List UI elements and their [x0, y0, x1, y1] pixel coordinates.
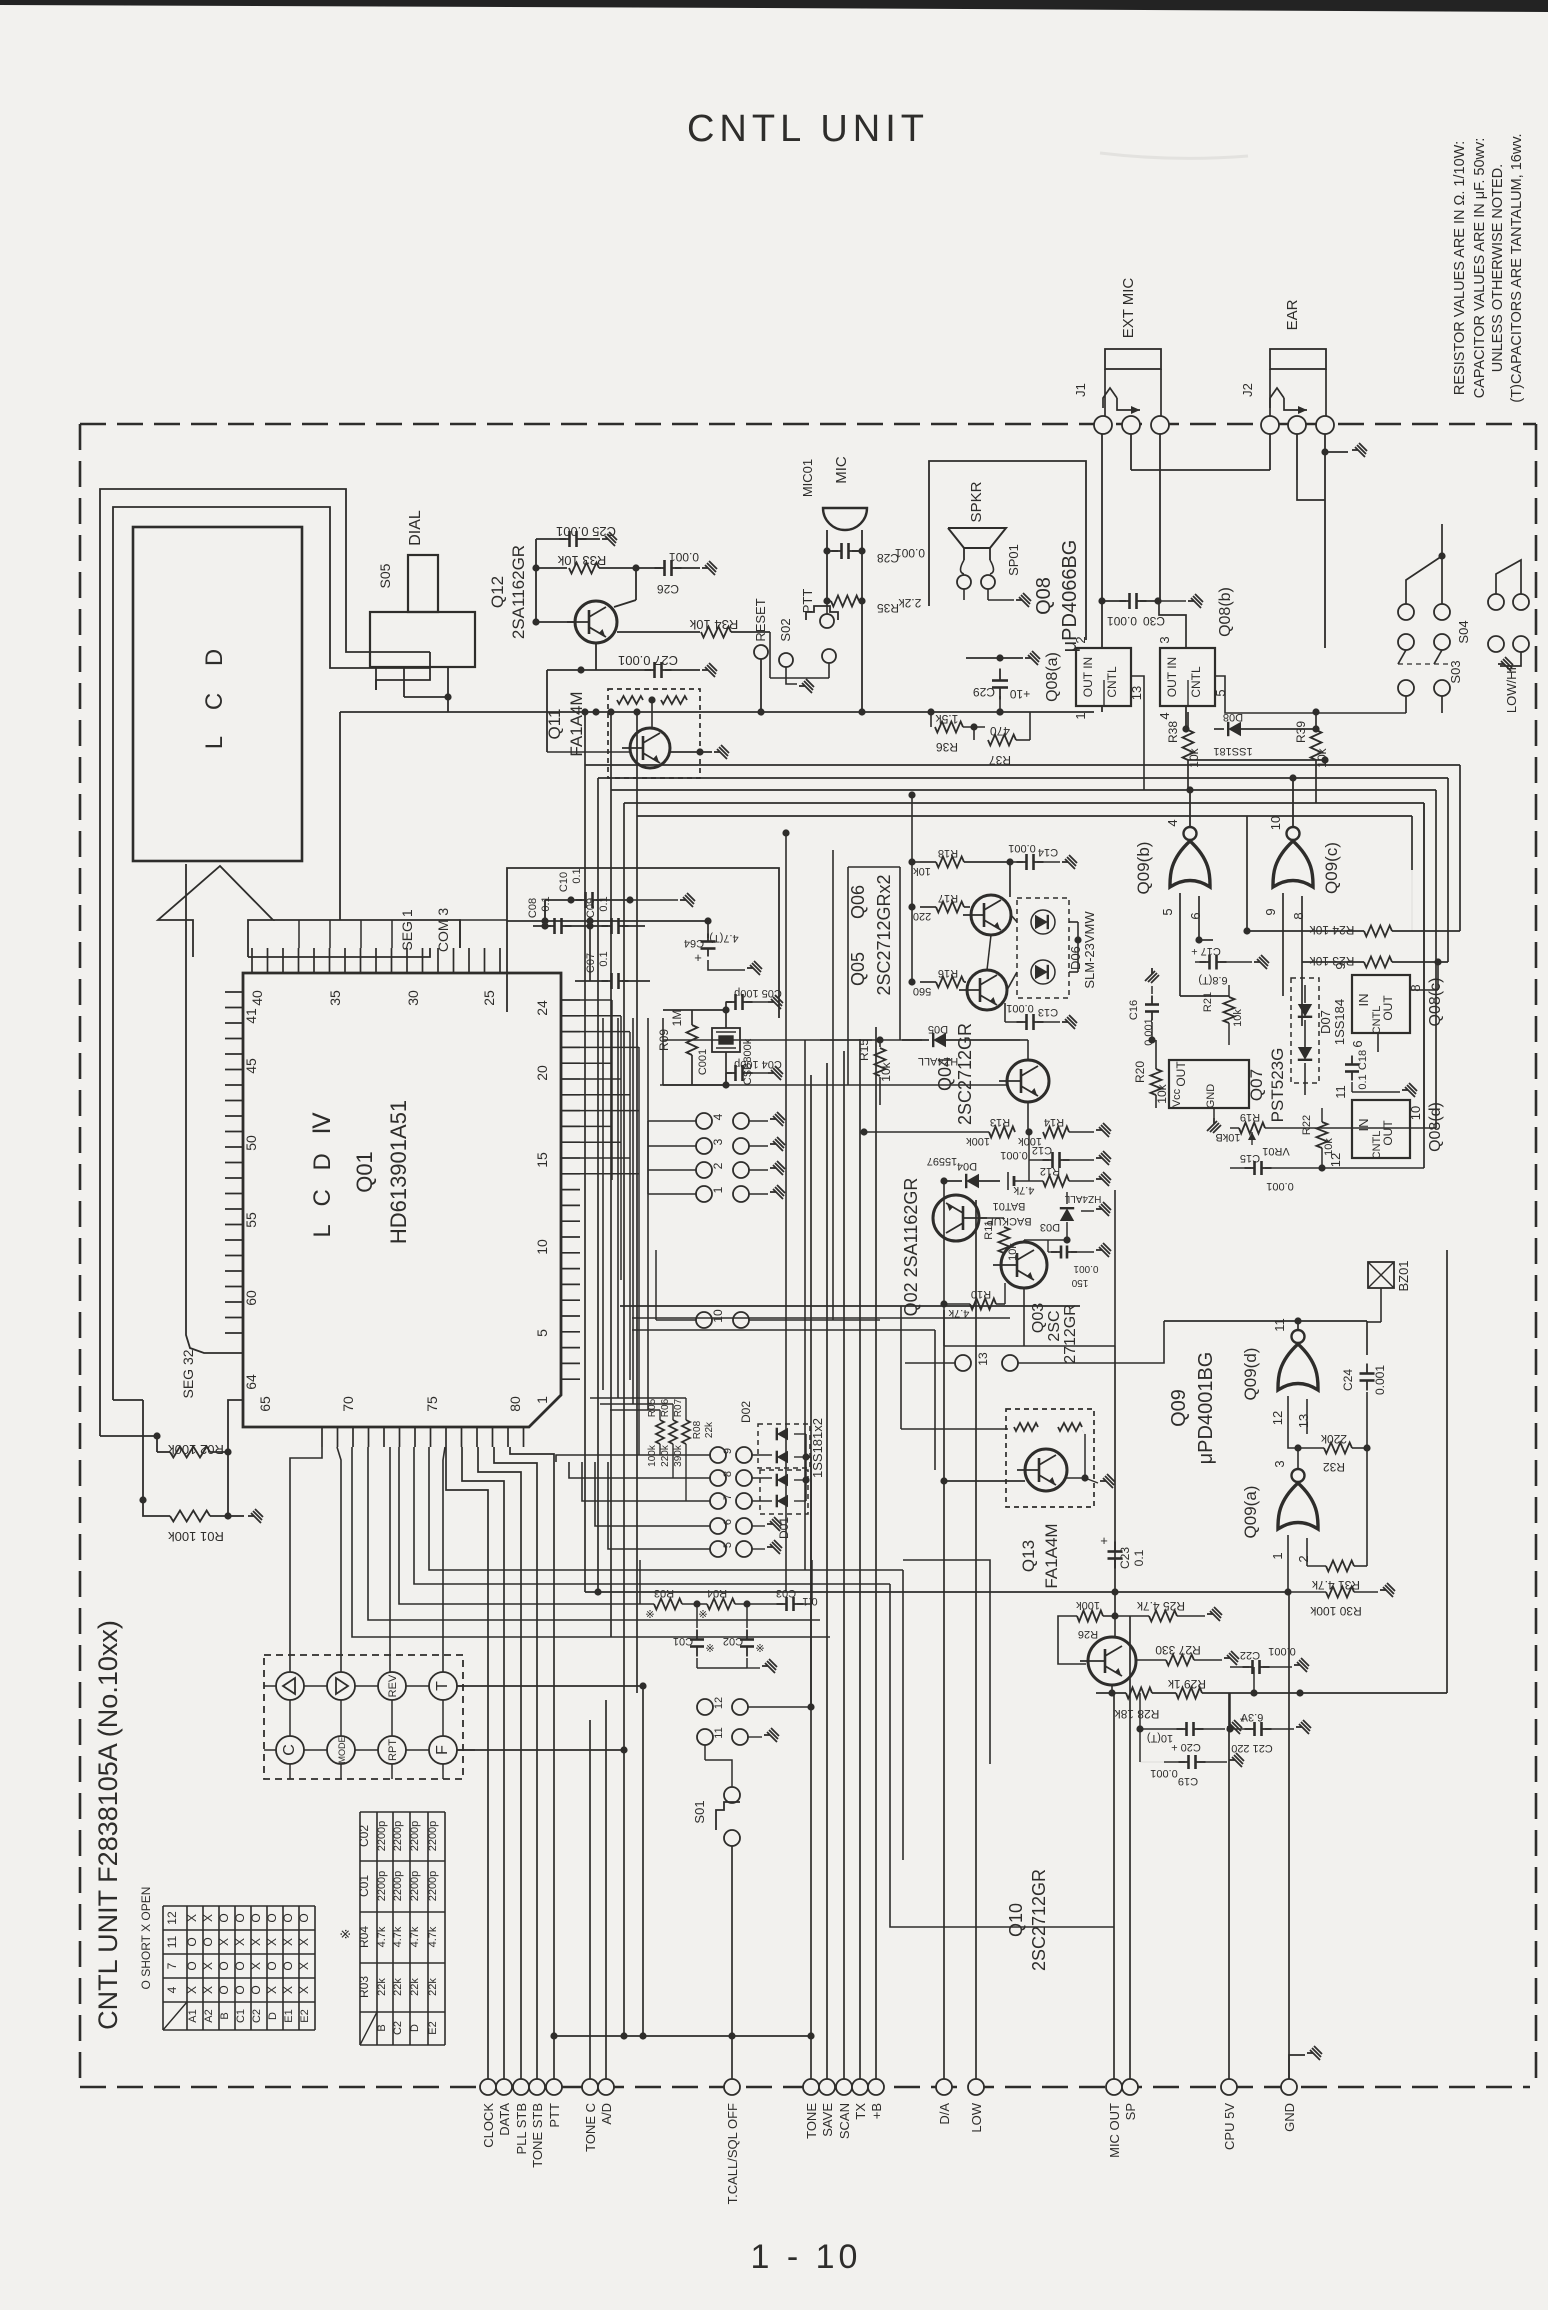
svg-text:S04: S04 — [1456, 620, 1471, 643]
svg-text:Q10: Q10 — [1006, 1903, 1026, 1937]
svg-text:1: 1 — [711, 1186, 725, 1193]
diode array D01 dashed box — [760, 1470, 808, 1514]
ground C14 — [1062, 855, 1077, 869]
svg-text:TONE C: TONE C — [583, 2103, 598, 2152]
wire EAR bus — [1131, 469, 1270, 471]
wire S05 to IC channel — [339, 712, 341, 920]
svg-text:2712GR: 2712GR — [1062, 1304, 1079, 1364]
svg-text:Q09(a): Q09(a) — [1241, 1486, 1260, 1539]
svg-text:J1: J1 — [1073, 383, 1088, 397]
svg-text:C001: C001 — [697, 1049, 709, 1075]
svg-text:(T)CAPACITORS ARE TANTALUM, 16: (T)CAPACITORS ARE TANTALUM, 16wv. — [1509, 133, 1525, 402]
keypad dashed box — [264, 1655, 463, 1779]
svg-text:3: 3 — [711, 1138, 725, 1145]
svg-text:5: 5 — [722, 1542, 734, 1548]
svg-text:1.5k: 1.5k — [935, 712, 959, 726]
svg-text:470: 470 — [990, 724, 1010, 738]
svg-text:R04: R04 — [707, 1587, 727, 1599]
svg-text:R14: R14 — [1044, 1116, 1064, 1128]
svg-text:Q08: Q08 — [1033, 577, 1055, 615]
parts table grid — [360, 1811, 445, 1813]
svg-text:4: 4 — [1157, 712, 1172, 719]
svg-text:R08: R08 — [692, 1420, 703, 1439]
resistor R29 — [1176, 1688, 1202, 1699]
ground R25 — [1207, 1607, 1222, 1621]
svg-text:0.1: 0.1 — [802, 1595, 817, 1607]
svg-text:O: O — [265, 1913, 279, 1922]
capacitor C01 — [696, 1630, 698, 1640]
resistor R26 — [1077, 1611, 1103, 1622]
svg-text:O SHORT X OPEN: O SHORT X OPEN — [139, 1887, 153, 1990]
svg-text:C19: C19 — [1178, 1775, 1198, 1787]
svg-text:RESISTOR VALUES ARE IN Ω. 1/10: RESISTOR VALUES ARE IN Ω. 1/10W: — [1452, 141, 1468, 395]
capacitor C19 — [1179, 1761, 1189, 1763]
ground D03 — [1096, 1202, 1111, 1216]
svg-text:C01: C01 — [357, 1875, 371, 1897]
resistor R25 — [1149, 1611, 1177, 1622]
svg-text:μPD4001BG: μPD4001BG — [1195, 1352, 1217, 1465]
RESET connector — [754, 645, 768, 659]
wire MIC OUT SP verticals — [1113, 1693, 1115, 2079]
key T — [429, 1672, 457, 1700]
wire left to pairs — [648, 1120, 696, 1122]
svg-text:0.001: 0.001 — [1107, 614, 1137, 628]
wire y760 segment — [1188, 759, 1325, 761]
svg-text:55: 55 — [243, 1212, 259, 1228]
svg-text:SP: SP — [1123, 2103, 1138, 2120]
svg-text:HZ4ALL: HZ4ALL — [1064, 1193, 1101, 1204]
svg-text:0.001: 0.001 — [1000, 1149, 1028, 1161]
svg-text:O: O — [217, 1913, 231, 1922]
LCD outer frame — [100, 489, 430, 1436]
ground S04 — [1500, 652, 1521, 666]
svg-text:X: X — [281, 1938, 295, 1946]
svg-text:R28 18k: R28 18k — [1114, 1707, 1160, 1721]
wire Q13 band — [620, 1305, 1080, 1307]
wire IC right pin stubs — [580, 999, 612, 1001]
svg-text:CNTL: CNTL — [1105, 666, 1119, 698]
svg-text:13: 13 — [976, 1352, 990, 1366]
svg-text:Q09(b): Q09(b) — [1134, 842, 1153, 895]
capacitor C03 — [777, 1603, 787, 1605]
svg-text:Q09(c): Q09(c) — [1322, 842, 1341, 894]
svg-text:4.7(T): 4.7(T) — [709, 932, 738, 944]
svg-text:+B: +B — [869, 2103, 884, 2119]
svg-text:R11: R11 — [983, 1220, 995, 1239]
svg-text:0.001: 0.001 — [1266, 1180, 1294, 1192]
IC Q01 bottom pins — [321, 1427, 323, 1447]
svg-text:S02: S02 — [778, 618, 793, 641]
wires S03 S04 — [1406, 556, 1442, 604]
svg-text:E1: E1 — [283, 2009, 295, 2022]
svg-text:TONE: TONE — [804, 2103, 819, 2139]
IC Q01 left pins — [225, 991, 243, 993]
transistor Q13 dashed box — [1006, 1409, 1094, 1507]
svg-text:22k: 22k — [409, 1978, 421, 1996]
svg-text:TX: TX — [853, 2103, 868, 2120]
svg-text:0.001: 0.001 — [1008, 842, 1036, 854]
wire Q13 base — [944, 1480, 1025, 1482]
capacitor C10 — [567, 896, 574, 903]
keypad F row wire right — [457, 1750, 624, 2036]
speaker terminals — [961, 560, 994, 574]
switch S03 dashed link — [1398, 663, 1450, 665]
bypass caps box — [507, 868, 779, 1018]
svg-text:O: O — [185, 1937, 199, 1946]
switch S02 — [779, 653, 793, 667]
wire Q09a to C23 line — [1115, 1591, 1288, 1593]
svg-text:OUT: OUT — [1174, 1061, 1188, 1087]
svg-text:SCAN: SCAN — [837, 2103, 852, 2139]
arrow bus channel — [248, 948, 430, 957]
svg-text:2.2k: 2.2k — [898, 596, 922, 610]
connector TONE — [803, 2079, 819, 2095]
transistor Q05 — [959, 970, 1007, 1010]
resistor R27 — [1166, 1655, 1194, 1666]
main dashed border — [80, 423, 1536, 426]
wire Q10 collector — [1114, 1616, 1116, 1637]
ground C10 — [626, 896, 633, 903]
resistor R28 — [1126, 1688, 1152, 1699]
svg-text:X: X — [233, 1938, 247, 1946]
svg-text:0.001: 0.001 — [1073, 1263, 1098, 1274]
svg-text:2200p: 2200p — [409, 1871, 421, 1902]
svg-text:11: 11 — [713, 1727, 725, 1738]
svg-text:24: 24 — [534, 1000, 550, 1016]
table diagonal — [163, 2002, 187, 2030]
connector J1 circles — [1094, 416, 1112, 434]
wire y712 long horizontal — [448, 711, 1094, 713]
svg-text:X: X — [265, 1986, 279, 1994]
wire C29 bottom — [999, 696, 1001, 712]
svg-text:1SS181x2: 1SS181x2 — [810, 1418, 825, 1478]
connector SP — [1122, 2079, 1138, 2095]
svg-text:C29: C29 — [973, 685, 995, 699]
transistor Q04 — [999, 1060, 1049, 1102]
wires NOR outputs — [1180, 995, 1229, 997]
S05 wires — [375, 667, 377, 690]
NOR gate Q09(a) — [1278, 1469, 1318, 1529]
ground C13 — [1062, 1015, 1077, 1029]
ground near J2 — [1325, 451, 1348, 453]
switch S04 circles — [1488, 594, 1504, 610]
svg-text:E2: E2 — [299, 2009, 311, 2022]
svg-text:D: D — [267, 2012, 279, 2020]
ground C11 — [1096, 1243, 1111, 1257]
resistor R04 — [707, 1599, 735, 1610]
resistor R37 — [963, 726, 985, 728]
svg-text:D01: D01 — [777, 1517, 791, 1539]
svg-text:C18: C18 — [1357, 1050, 1369, 1070]
svg-text:Vcc: Vcc — [1171, 1088, 1183, 1107]
svg-text:X: X — [185, 1986, 199, 1994]
svg-text:R13: R13 — [990, 1116, 1010, 1128]
wire R35 down — [858, 597, 865, 604]
svg-text:R04: R04 — [357, 1926, 371, 1948]
svg-text:R34 10k: R34 10k — [689, 617, 738, 632]
wire Q12 collector — [635, 568, 637, 600]
switch S01 — [724, 1787, 740, 1803]
wire caps box verticals down — [602, 1018, 604, 1390]
svg-text:220k: 220k — [660, 1444, 671, 1467]
ground C17 — [1254, 955, 1269, 969]
resistor R13 — [989, 1127, 1015, 1138]
wire Q04 emitter — [1027, 1102, 1029, 1132]
wire R09 row to Q05 — [663, 1039, 922, 1041]
svg-text:1SS181: 1SS181 — [1213, 745, 1252, 757]
capacitor C09 — [586, 922, 593, 929]
connector pair 4 — [696, 1113, 712, 1129]
svg-text:μPD4066BG: μPD4066BG — [1059, 540, 1081, 653]
svg-text:560: 560 — [913, 985, 931, 997]
connector pair 10 — [696, 1312, 712, 1328]
buzzer BZ01 — [1368, 1262, 1394, 1288]
svg-text:R22: R22 — [1301, 1115, 1313, 1135]
svg-text:R32: R32 — [1323, 1460, 1345, 1474]
wire mid band left verticals — [584, 712, 586, 1592]
connector GND — [1281, 2079, 1297, 2095]
svg-text:6.8(T): 6.8(T) — [1198, 974, 1227, 986]
capacitor C22 — [1243, 1666, 1253, 1668]
svg-text:D08: D08 — [1223, 711, 1243, 723]
wire Q08b pins — [1159, 601, 1186, 649]
svg-text:O: O — [249, 1985, 263, 1994]
wires diode array — [794, 1433, 806, 1435]
svg-text:0.1: 0.1 — [598, 896, 610, 911]
PTT connector circles — [823, 597, 830, 604]
svg-text:X: X — [297, 1986, 311, 1994]
wire 1592 extension left — [585, 1591, 1115, 1593]
Q11 emitter ground — [670, 751, 712, 753]
svg-text:R29 1k: R29 1k — [1167, 1677, 1206, 1691]
wire Q03 collector — [1023, 1240, 1025, 1242]
svg-text:SLM-23VMW: SLM-23VMW — [1082, 911, 1097, 989]
connector CPU 5V — [1221, 2079, 1237, 2095]
svg-text:D02: D02 — [739, 1401, 753, 1423]
Q11 base resistors — [617, 696, 643, 704]
svg-text:C10: C10 — [558, 872, 570, 892]
svg-text:25: 25 — [481, 990, 497, 1006]
svg-text:TONE STB: TONE STB — [530, 2103, 545, 2168]
svg-text:4.7k: 4.7k — [1013, 1184, 1034, 1196]
svg-text:X: X — [281, 1986, 295, 1994]
svg-text:220k: 220k — [1320, 1432, 1347, 1446]
svg-text:LOW: LOW — [969, 2102, 984, 2132]
svg-text:O: O — [233, 1961, 247, 1970]
svg-text:15: 15 — [534, 1152, 550, 1168]
svg-text:FA1A4M: FA1A4M — [1042, 1523, 1061, 1588]
svg-text:0.1: 0.1 — [598, 951, 610, 966]
capacitor C13 — [1004, 1003, 1006, 1022]
svg-text:SEG 1: SEG 1 — [399, 909, 415, 950]
connector pair 13 — [955, 1355, 971, 1371]
svg-text:12: 12 — [1270, 1411, 1285, 1425]
svg-text:1: 1 — [534, 1396, 550, 1404]
capacitor C02 — [746, 1630, 748, 1640]
NOR gate Q09(b) — [1170, 827, 1210, 887]
resistor R38 — [1183, 730, 1194, 760]
svg-text:R01 100k: R01 100k — [168, 1529, 224, 1544]
oscillator wires — [691, 1010, 693, 1025]
connector CLOCK — [480, 2079, 496, 2095]
resistor R32 — [1324, 1443, 1352, 1454]
svg-text:Q12: Q12 — [488, 576, 507, 608]
svg-text:C26: C26 — [657, 582, 679, 596]
svg-text:R17: R17 — [938, 892, 958, 904]
svg-text:FA1A4M: FA1A4M — [567, 691, 586, 756]
svg-text:C: C — [281, 1744, 298, 1756]
svg-text:DIAL: DIAL — [407, 510, 424, 546]
svg-text:10k: 10k — [1323, 1138, 1335, 1156]
svg-text:35: 35 — [327, 990, 343, 1006]
NOR gate Q09(c) — [1273, 827, 1313, 887]
wire bottom long horizontal — [554, 2035, 811, 2037]
svg-text:Q05: Q05 — [848, 952, 868, 986]
svg-text:1: 1 — [1073, 712, 1088, 719]
svg-text:8: 8 — [1291, 912, 1306, 919]
svg-text:SP01: SP01 — [1006, 544, 1021, 576]
wire TONE..+B verticals — [810, 1075, 812, 2079]
keypad bus verticals from IC — [290, 1447, 322, 1672]
svg-text:C12: C12 — [1032, 1144, 1052, 1156]
svg-text:2200p: 2200p — [427, 1821, 439, 1852]
key up arrow — [276, 1672, 304, 1700]
svg-text:C09: C09 — [585, 898, 597, 918]
svg-text:R20: R20 — [1133, 1061, 1147, 1083]
svg-text:X: X — [249, 1938, 263, 1946]
svg-text:30: 30 — [405, 990, 421, 1006]
svg-text:R38: R38 — [1166, 721, 1180, 743]
ground C21 — [1296, 1720, 1311, 1734]
capacitor C24 — [1366, 1364, 1368, 1374]
ground Q13 — [1066, 1477, 1085, 1479]
svg-text:C17 +: C17 + — [1191, 945, 1221, 957]
svg-text:C05 100p: C05 100p — [734, 987, 782, 999]
svg-text:2200p: 2200p — [409, 1821, 421, 1852]
svg-text:100k: 100k — [647, 1444, 658, 1467]
svg-text:REV: REV — [387, 1674, 399, 1697]
diode D03 — [1060, 1208, 1074, 1221]
ground C22 — [1294, 1658, 1309, 1672]
svg-text:100k: 100k — [1076, 1599, 1100, 1611]
connector PTT — [546, 2079, 562, 2095]
svg-text:※: ※ — [338, 1929, 353, 1940]
connector pair 6 — [710, 1518, 726, 1534]
svg-text:X: X — [217, 1938, 231, 1946]
svg-text:MIC01: MIC01 — [800, 459, 815, 497]
connector pair 7 — [710, 1493, 726, 1509]
svg-text:41: 41 — [243, 1008, 259, 1024]
svg-text:R30 100k: R30 100k — [1309, 1604, 1361, 1618]
capacitor C21 — [1245, 1728, 1255, 1730]
svg-text:C15: C15 — [1240, 1152, 1260, 1164]
wire J1 J2 down — [1130, 434, 1132, 470]
svg-text:R35: R35 — [877, 601, 899, 615]
connector D/A — [936, 2079, 952, 2095]
ground C27 — [702, 663, 717, 677]
svg-text:R27 330: R27 330 — [1155, 1643, 1201, 1657]
svg-text:0.001: 0.001 — [669, 550, 699, 564]
diode D07 dashed box — [1291, 978, 1319, 1083]
svg-text:CNTL: CNTL — [1189, 666, 1203, 698]
svg-text:R26: R26 — [1078, 1628, 1098, 1640]
capacitor C17 tantalum — [1200, 961, 1210, 963]
svg-text:PST523G: PST523G — [1268, 1048, 1287, 1123]
svg-text:70: 70 — [340, 1396, 356, 1412]
capacitor C25 — [535, 539, 537, 568]
svg-text:4.7k: 4.7k — [409, 1926, 421, 1947]
svg-text:7: 7 — [722, 1494, 734, 1500]
svg-text:C08: C08 — [527, 898, 539, 918]
ground C16 — [1151, 986, 1153, 994]
svg-text:GND: GND — [1282, 2103, 1297, 2132]
Q09a input pins — [1287, 1535, 1289, 1592]
resistor R10 — [970, 1299, 996, 1310]
resistor R02 — [153, 1432, 160, 1439]
wire Q05 Q06 base bus — [911, 795, 913, 982]
svg-text:+10: +10 — [1009, 687, 1030, 701]
resistor R33 — [532, 564, 539, 571]
svg-text:O: O — [233, 1985, 247, 1994]
svg-text:2: 2 — [1296, 1555, 1311, 1562]
capacitor C18 — [1351, 1056, 1353, 1065]
diode D04 — [966, 1174, 979, 1188]
connector A/D — [598, 2079, 614, 2095]
svg-text:0.001: 0.001 — [1268, 1645, 1296, 1657]
svg-text:R33 10k: R33 10k — [557, 553, 606, 568]
wire Q06 to Q05 — [987, 935, 991, 970]
svg-text:A/D: A/D — [599, 2103, 614, 2125]
wire C15 line to band — [1322, 1167, 1424, 1169]
wire cluster — [507, 920, 708, 922]
connector pair 5 — [710, 1541, 726, 1557]
keypad bottom stubs — [289, 1764, 291, 1779]
svg-text:11: 11 — [1333, 1085, 1348, 1099]
svg-text:R03: R03 — [357, 1976, 371, 1998]
svg-text:C64: C64 — [684, 937, 704, 949]
svg-text:C27 0.001: C27 0.001 — [618, 653, 678, 668]
svg-text:+: + — [694, 950, 702, 965]
svg-text:※: ※ — [755, 1643, 764, 1655]
svg-text:0.1: 0.1 — [1357, 1074, 1369, 1089]
microphone MIC01 — [823, 508, 867, 530]
svg-text:Q13: Q13 — [1019, 1540, 1038, 1572]
resistor R12 — [1028, 1160, 1030, 1181]
svg-text:C13: C13 — [1038, 1006, 1058, 1018]
svg-text:R10: R10 — [971, 1288, 991, 1300]
svg-text:64: 64 — [243, 1374, 259, 1390]
svg-text:C04 100p: C04 100p — [734, 1058, 782, 1070]
IC Q01 HD613901A51 body — [243, 973, 561, 1427]
svg-text:C16: C16 — [1128, 1000, 1140, 1020]
battery BAT01 — [1007, 1172, 1009, 1190]
svg-text:X: X — [201, 1986, 215, 1994]
svg-text:SPKR: SPKR — [968, 481, 985, 522]
connector TONE STB — [529, 2079, 545, 2095]
wire from frames — [100, 1435, 157, 1437]
wire R01 junction to IC bottom — [227, 1452, 229, 1516]
svg-text:O: O — [217, 1985, 231, 1994]
svg-text:EAR: EAR — [1284, 299, 1301, 330]
wire Q13 top — [1114, 1346, 1116, 1616]
ground near C29 — [1025, 651, 1040, 665]
svg-text:45: 45 — [243, 1058, 259, 1074]
svg-text:PTT: PTT — [800, 589, 815, 614]
resistor R09 — [687, 1025, 698, 1055]
switch S03 circles — [1398, 604, 1414, 620]
wire Q12 base — [535, 568, 537, 622]
svg-text:2: 2 — [1073, 636, 1088, 643]
